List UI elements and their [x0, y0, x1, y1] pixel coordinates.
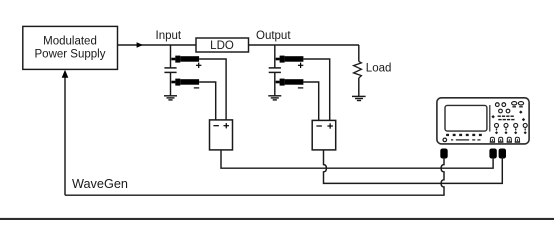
- wire wavegen plug down with hops: [65, 158, 444, 196]
- wire input + sense to probe box: [199, 59, 226, 120]
- oscilloscope diamond buttons: [491, 110, 525, 121]
- wire resistor to ground: [358, 78, 360, 96]
- arrowhead into supply: [62, 70, 69, 78]
- svg-text:LDO: LDO: [210, 40, 234, 52]
- oscilloscope channel knobs row5: [495, 123, 528, 130]
- sense probe output +: [276, 56, 304, 63]
- wire input - sense to probe box: [199, 82, 216, 120]
- wire probe box U2 to scope ch1: [221, 150, 493, 168]
- oscilloscope screen: [445, 105, 487, 131]
- diff probe box U3 output: [312, 120, 336, 149]
- oscilloscope dashes row4: [498, 119, 514, 121]
- label + input: [196, 63, 201, 68]
- capacitor C2 output: [269, 68, 281, 73]
- wire supply output to LDO input: [118, 44, 197, 46]
- ground input: [164, 96, 177, 100]
- oscilloscope bottom controls: [443, 138, 481, 142]
- probe box U3 polarity labels: [316, 123, 333, 128]
- capacitor C1 input: [164, 68, 176, 73]
- svg-text:Input: Input: [156, 30, 182, 42]
- plug channel 1: [489, 149, 496, 159]
- wire wavegen up to supply: [64, 77, 66, 195]
- power supply box PS1: [23, 26, 118, 69]
- label + output: [298, 63, 303, 68]
- wire input node down to cap: [170, 45, 172, 68]
- LDO U1: [196, 38, 249, 52]
- wire cap to ground: [170, 72, 172, 95]
- wire probe box U3 to scope ch2 with hop: [324, 150, 503, 184]
- page rule bottom: [0, 218, 554, 220]
- oscilloscope body: [437, 98, 529, 144]
- oscilloscope knobs row2: [499, 109, 510, 113]
- oscilloscope knobs row1: [495, 102, 523, 107]
- probe box U2 polarity labels: [213, 123, 229, 128]
- resistor Load: [354, 61, 362, 78]
- oscilloscope panel divider: [489, 105, 491, 132]
- sense probe output -: [276, 79, 304, 86]
- wire output to load resistor: [358, 45, 360, 61]
- svg-text:Power Supply: Power Supply: [35, 48, 106, 60]
- label - output: [298, 87, 303, 89]
- wire output + sense to probe box: [303, 59, 329, 120]
- diff probe box U2 input: [210, 120, 233, 150]
- wire output node down to cap: [274, 45, 276, 68]
- sense probe input +: [171, 56, 199, 63]
- oscilloscope dashes row3: [498, 115, 514, 117]
- oscilloscope BNC connectors: [490, 137, 520, 142]
- wire output - sense to probe box: [303, 82, 318, 120]
- oscilloscope tiny diamonds under knobs: [495, 131, 527, 134]
- ground output: [268, 96, 281, 100]
- oscilloscope softkey squares row: [446, 134, 482, 136]
- arrowhead on supply output wire: [137, 42, 143, 48]
- label - input: [194, 87, 199, 89]
- svg-text:Modulated: Modulated: [43, 35, 97, 47]
- wire LDO output to load: [249, 44, 360, 46]
- ground load: [352, 96, 366, 100]
- plug channel 2: [499, 149, 506, 159]
- power supply label: [35, 35, 106, 60]
- svg-text:Output: Output: [256, 30, 291, 42]
- sense probe input -: [171, 79, 199, 86]
- plug wavegen: [440, 149, 447, 159]
- svg-text:WaveGen: WaveGen: [72, 177, 128, 191]
- svg-text:Load: Load: [366, 63, 392, 75]
- wire cap2 to ground: [274, 72, 276, 95]
